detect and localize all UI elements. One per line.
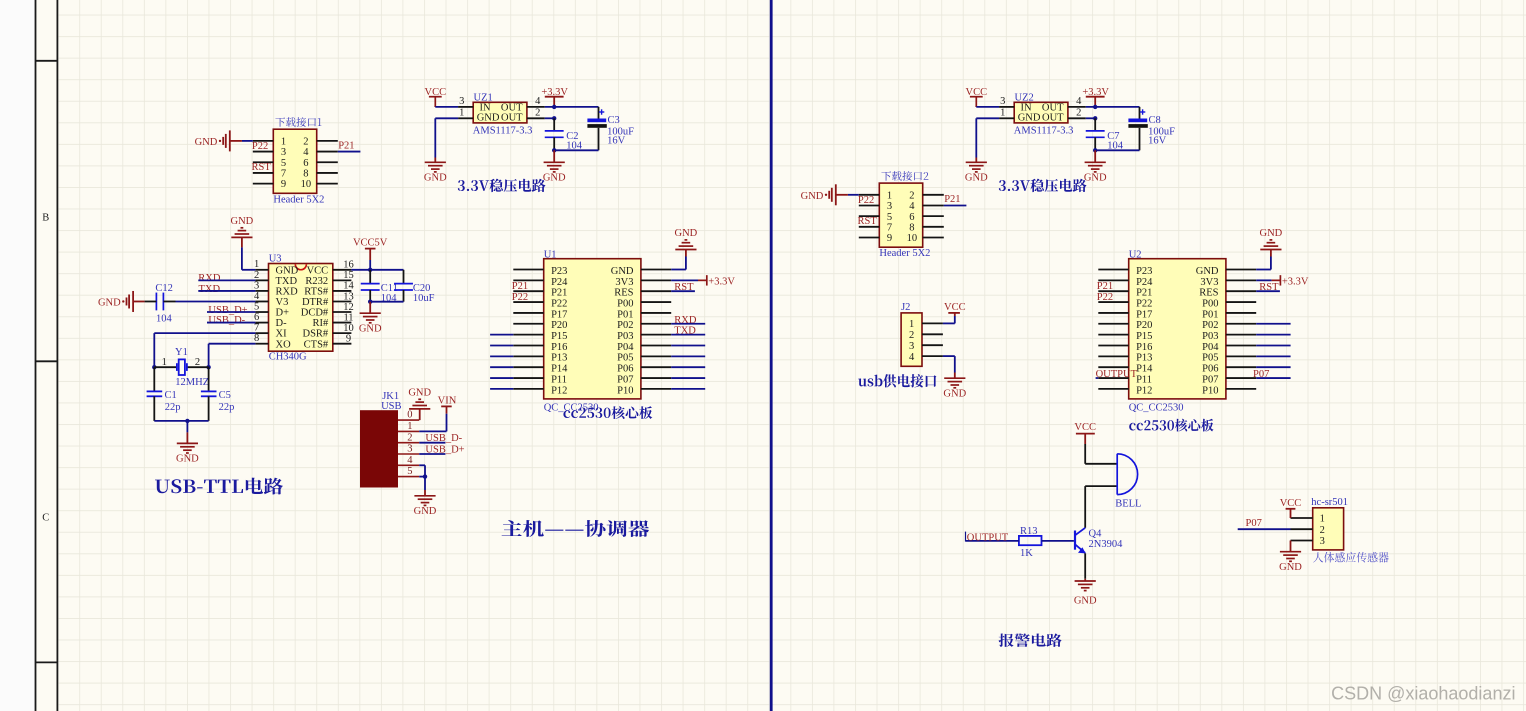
svg-text:16V: 16V — [1148, 136, 1167, 147]
svg-text:DCD#: DCD# — [301, 308, 329, 319]
svg-text:OUT: OUT — [501, 113, 523, 124]
svg-text:P03: P03 — [617, 331, 633, 342]
svg-text:15: 15 — [343, 270, 354, 281]
svg-text:13: 13 — [343, 291, 354, 302]
svg-text:0: 0 — [407, 410, 412, 421]
svg-text:RES: RES — [1199, 288, 1218, 299]
svg-text:3: 3 — [459, 96, 464, 107]
svg-text:10: 10 — [907, 233, 918, 244]
svg-text:16V: 16V — [607, 136, 626, 147]
svg-text:5: 5 — [887, 212, 892, 223]
svg-text:GND: GND — [176, 454, 199, 465]
svg-text:P23: P23 — [551, 266, 567, 277]
svg-text:2: 2 — [303, 137, 308, 148]
svg-text:P16: P16 — [551, 342, 567, 353]
svg-text:1: 1 — [887, 190, 892, 201]
svg-text:12MHZ: 12MHZ — [175, 377, 209, 388]
svg-text:P22: P22 — [551, 298, 567, 309]
svg-text:4: 4 — [909, 201, 915, 212]
svg-text:B: B — [42, 212, 49, 223]
svg-text:4: 4 — [254, 291, 260, 302]
svg-text:OUTPUT: OUTPUT — [1096, 369, 1138, 380]
svg-text:4: 4 — [909, 352, 915, 363]
svg-text:BELL: BELL — [1115, 499, 1141, 510]
svg-text:P14: P14 — [551, 364, 568, 375]
svg-text:P22: P22 — [1136, 298, 1152, 309]
svg-text:9: 9 — [281, 179, 286, 190]
svg-text:VCC: VCC — [944, 302, 966, 313]
svg-text:P05: P05 — [1202, 353, 1218, 364]
svg-text:3V3: 3V3 — [1200, 277, 1218, 288]
svg-text:2: 2 — [909, 330, 914, 341]
svg-text:104: 104 — [156, 314, 173, 325]
svg-text:VCC: VCC — [966, 87, 988, 98]
svg-text:GND: GND — [98, 297, 121, 308]
svg-text:3V3: 3V3 — [615, 277, 633, 288]
svg-text:RST: RST — [858, 216, 878, 227]
svg-text:GND: GND — [408, 387, 431, 398]
svg-text:TXD: TXD — [276, 276, 298, 287]
svg-text:P01: P01 — [617, 309, 633, 320]
svg-text:P12: P12 — [551, 385, 567, 396]
svg-text:4: 4 — [303, 147, 309, 158]
svg-text:P15: P15 — [1136, 331, 1152, 342]
svg-text:1: 1 — [162, 357, 167, 368]
svg-text:GND: GND — [1196, 266, 1219, 277]
svg-text:P21: P21 — [512, 281, 528, 292]
svg-text:P11: P11 — [1136, 374, 1152, 385]
svg-text:USB_D-: USB_D- — [208, 315, 245, 326]
svg-text:P12: P12 — [1136, 385, 1152, 396]
svg-text:P06: P06 — [1202, 364, 1218, 375]
svg-text:11: 11 — [343, 312, 353, 323]
svg-text:P24: P24 — [1136, 277, 1153, 288]
svg-text:GND: GND — [477, 113, 500, 124]
svg-text:V3: V3 — [276, 297, 289, 308]
svg-text:P17: P17 — [551, 309, 567, 320]
svg-text:R232: R232 — [305, 276, 328, 287]
svg-text:P22: P22 — [512, 292, 528, 303]
svg-text:C: C — [42, 513, 49, 524]
svg-text:DSR#: DSR# — [303, 329, 329, 340]
svg-text:VIN: VIN — [438, 396, 457, 407]
svg-text:+3.3V: +3.3V — [1282, 277, 1309, 288]
svg-text:P20: P20 — [1136, 320, 1152, 331]
svg-text:2: 2 — [195, 357, 200, 368]
svg-text:2N3904: 2N3904 — [1089, 539, 1124, 550]
svg-text:P21: P21 — [944, 194, 960, 205]
svg-text:P02: P02 — [617, 320, 633, 331]
svg-text:3: 3 — [887, 201, 892, 212]
svg-text:VCC5V: VCC5V — [353, 237, 388, 248]
svg-text:2: 2 — [1320, 525, 1325, 536]
svg-text:10: 10 — [343, 323, 354, 334]
svg-text:10: 10 — [301, 179, 312, 190]
svg-text:CSDN @xiaohaodianzi: CSDN @xiaohaodianzi — [1331, 684, 1515, 704]
svg-text:GND: GND — [1084, 173, 1107, 184]
svg-text:3: 3 — [254, 280, 259, 291]
svg-text:D-: D- — [276, 318, 288, 329]
svg-text:C12: C12 — [155, 283, 173, 294]
svg-text:1: 1 — [281, 137, 286, 148]
svg-text:AMS1117-3.3: AMS1117-3.3 — [1014, 125, 1074, 136]
svg-text:D+: D+ — [276, 308, 290, 319]
svg-text:+3.3V: +3.3V — [541, 87, 568, 98]
svg-text:3: 3 — [1320, 536, 1325, 547]
svg-text:4: 4 — [1076, 96, 1082, 107]
svg-text:P07: P07 — [1202, 374, 1218, 385]
svg-text:14: 14 — [343, 281, 354, 292]
svg-text:XI: XI — [276, 329, 288, 340]
svg-text:OUTPUT: OUTPUT — [967, 532, 1009, 543]
svg-text:P04: P04 — [617, 342, 634, 353]
svg-text:4: 4 — [535, 96, 541, 107]
svg-text:P11: P11 — [551, 374, 567, 385]
svg-text:5: 5 — [281, 158, 286, 169]
svg-text:9: 9 — [887, 233, 892, 244]
svg-text:3: 3 — [1000, 96, 1005, 107]
svg-text:OUT: OUT — [1042, 113, 1064, 124]
svg-text:P05: P05 — [617, 353, 633, 364]
svg-text:VCC: VCC — [1074, 422, 1096, 433]
svg-text:P06: P06 — [617, 364, 633, 375]
svg-text:DTR#: DTR# — [302, 297, 329, 308]
svg-text:8: 8 — [909, 222, 914, 233]
svg-text:R13: R13 — [1020, 526, 1038, 537]
svg-text:GND: GND — [1260, 228, 1283, 239]
svg-text:RES: RES — [614, 288, 633, 299]
svg-text:GND: GND — [801, 191, 824, 202]
svg-text:22p: 22p — [219, 402, 235, 413]
svg-text:1: 1 — [1320, 514, 1325, 525]
svg-text:12: 12 — [343, 302, 354, 313]
svg-text:P01: P01 — [1202, 309, 1218, 320]
svg-text:RXD: RXD — [198, 273, 221, 284]
svg-text:GND: GND — [195, 137, 218, 148]
svg-text:1: 1 — [909, 319, 914, 330]
svg-text:XO: XO — [276, 339, 292, 350]
svg-text:GND: GND — [965, 173, 988, 184]
svg-text:GND: GND — [611, 266, 634, 277]
svg-text:P00: P00 — [1202, 298, 1218, 309]
svg-text:P17: P17 — [1136, 309, 1152, 320]
svg-text:P14: P14 — [1136, 364, 1153, 375]
svg-text:CTS#: CTS# — [304, 339, 329, 350]
svg-text:VCC: VCC — [1280, 498, 1302, 509]
svg-text:7: 7 — [254, 323, 259, 334]
svg-text:6: 6 — [303, 158, 308, 169]
svg-text:2: 2 — [909, 190, 914, 201]
svg-text:P16: P16 — [1136, 342, 1152, 353]
svg-text:7: 7 — [887, 222, 892, 233]
svg-text:P13: P13 — [1136, 353, 1152, 364]
svg-text:P02: P02 — [1202, 320, 1218, 331]
svg-text:AMS1117-3.3: AMS1117-3.3 — [473, 125, 533, 136]
svg-text:GND: GND — [543, 173, 566, 184]
svg-text:2: 2 — [1076, 107, 1081, 118]
svg-text:9: 9 — [346, 333, 351, 344]
svg-text:P04: P04 — [1202, 342, 1219, 353]
svg-text:5: 5 — [254, 301, 259, 312]
svg-text:RXD: RXD — [276, 287, 299, 298]
svg-text:P21: P21 — [1136, 288, 1152, 299]
svg-text:+3.3V: +3.3V — [1082, 87, 1109, 98]
svg-text:CH340G: CH340G — [269, 352, 307, 363]
svg-text:Y1: Y1 — [175, 347, 188, 358]
svg-text:RTS#: RTS# — [304, 287, 329, 298]
svg-text:1: 1 — [459, 107, 464, 118]
svg-text:TXD: TXD — [199, 284, 221, 295]
svg-text:1: 1 — [254, 259, 259, 270]
svg-text:P22: P22 — [252, 141, 268, 152]
svg-text:C5: C5 — [219, 390, 231, 401]
svg-text:P20: P20 — [551, 320, 567, 331]
svg-text:1K: 1K — [1020, 548, 1033, 559]
svg-text:1: 1 — [1000, 107, 1005, 118]
svg-text:QC_CC2530: QC_CC2530 — [1129, 403, 1184, 414]
svg-text:VCC: VCC — [307, 265, 329, 276]
svg-text:GND: GND — [359, 324, 382, 335]
svg-text:P24: P24 — [551, 277, 568, 288]
svg-text:P15: P15 — [551, 331, 567, 342]
svg-text:7: 7 — [281, 169, 286, 180]
svg-text:P22: P22 — [1097, 292, 1113, 303]
svg-text:P03: P03 — [1202, 331, 1218, 342]
svg-text:P10: P10 — [617, 385, 633, 396]
svg-text:P21: P21 — [1097, 281, 1113, 292]
svg-text:6: 6 — [909, 212, 914, 223]
svg-text:22p: 22p — [165, 402, 181, 413]
svg-text:GND: GND — [675, 228, 698, 239]
svg-text:5: 5 — [407, 466, 412, 477]
svg-text:C1: C1 — [165, 390, 177, 401]
svg-text:8: 8 — [303, 169, 308, 180]
svg-text:GND: GND — [276, 265, 299, 276]
svg-text:P13: P13 — [551, 353, 567, 364]
svg-text:6: 6 — [254, 312, 259, 323]
svg-text:GND: GND — [1074, 596, 1097, 607]
svg-text:P00: P00 — [617, 298, 633, 309]
svg-text:2: 2 — [254, 270, 259, 281]
svg-text:+3.3V: +3.3V — [708, 277, 735, 288]
svg-text:3: 3 — [909, 341, 914, 352]
svg-text:GND: GND — [414, 506, 437, 517]
svg-text:1: 1 — [407, 421, 412, 432]
svg-text:RST: RST — [252, 162, 272, 173]
svg-text:RI#: RI# — [312, 318, 329, 329]
svg-text:GND: GND — [1018, 113, 1041, 124]
svg-text:C3: C3 — [608, 115, 620, 126]
svg-text:GND: GND — [1279, 562, 1302, 573]
svg-text:P07: P07 — [1246, 518, 1262, 529]
svg-text:2: 2 — [535, 107, 540, 118]
svg-text:4: 4 — [407, 455, 413, 466]
svg-text:3: 3 — [281, 147, 286, 158]
svg-text:C8: C8 — [1149, 115, 1161, 126]
svg-text:J2: J2 — [901, 302, 910, 313]
svg-text:GND: GND — [943, 389, 966, 400]
svg-text:3: 3 — [407, 444, 412, 455]
svg-text:10uF: 10uF — [413, 293, 435, 304]
svg-text:P22: P22 — [858, 195, 874, 206]
svg-text:VCC: VCC — [425, 87, 447, 98]
svg-text:hc-sr501: hc-sr501 — [1311, 497, 1348, 508]
svg-text:2: 2 — [407, 432, 412, 443]
svg-text:8: 8 — [254, 333, 259, 344]
svg-text:P21: P21 — [338, 140, 354, 151]
svg-text:P23: P23 — [1136, 266, 1152, 277]
svg-text:P07: P07 — [617, 374, 633, 385]
svg-text:Header 5X2: Header 5X2 — [273, 194, 324, 205]
svg-text:GND: GND — [231, 216, 254, 227]
svg-text:Header 5X2: Header 5X2 — [879, 248, 930, 259]
svg-text:P21: P21 — [551, 288, 567, 299]
svg-text:GND: GND — [424, 173, 447, 184]
svg-text:P10: P10 — [1202, 385, 1218, 396]
